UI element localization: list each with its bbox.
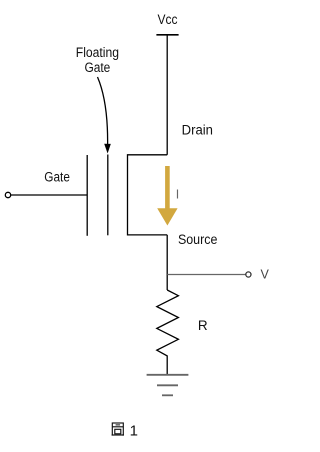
current arrow I <box>165 166 170 210</box>
wire output tap <box>167 274 246 276</box>
svg-text:Drain: Drain <box>182 122 213 137</box>
wire gate <box>11 194 87 196</box>
wire source <box>166 235 168 290</box>
transistor Q1 channel <box>128 155 168 235</box>
caption figure glyph (zu) <box>112 423 124 435</box>
svg-text:Gate: Gate <box>84 60 110 75</box>
Vcc supply bar <box>156 34 178 36</box>
resistor R1 zigzag <box>157 290 179 375</box>
wire drain (Vcc to transistor) <box>166 35 168 155</box>
svg-text:Floating: Floating <box>76 45 119 60</box>
annotation arrow to floating gate <box>98 77 108 146</box>
svg-text:Source: Source <box>178 232 218 247</box>
transistor Q1 gate bar <box>86 155 88 236</box>
output terminal V <box>246 272 251 277</box>
svg-text:Vcc: Vcc <box>158 12 178 27</box>
svg-text:1: 1 <box>130 423 138 440</box>
gate input terminal <box>5 192 10 197</box>
svg-text:I: I <box>176 188 179 202</box>
svg-text:Gate: Gate <box>44 169 70 184</box>
svg-text:R: R <box>198 318 208 333</box>
svg-text:V: V <box>261 268 270 282</box>
transistor Q1 floating gate bar <box>107 155 109 236</box>
ground <box>147 374 189 376</box>
